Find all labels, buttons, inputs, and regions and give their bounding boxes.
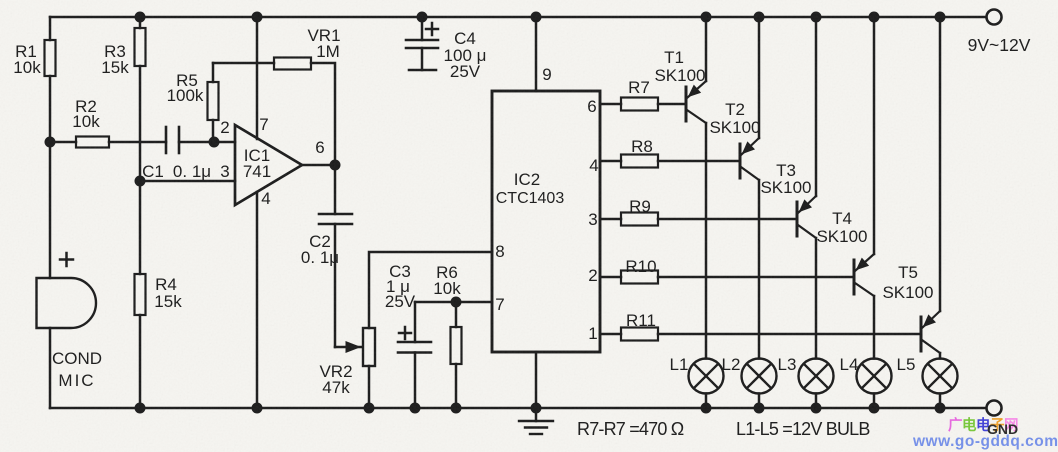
node pin2/R5 junction	[209, 137, 220, 148]
transistor T3 SK100	[797, 196, 816, 238]
label T2 SK100	[709, 100, 760, 137]
mic plus sign	[60, 253, 73, 266]
label R5	[167, 71, 204, 105]
lamp bulb L5	[923, 359, 958, 394]
watermark	[912, 416, 1058, 450]
wire top supply rail	[50, 16, 986, 19]
wire bulb L3 to ground rail	[815, 394, 818, 409]
node pin7 rail	[252, 12, 263, 23]
label T4 SK100	[816, 209, 867, 246]
label R1	[13, 42, 41, 77]
wire feedback right	[311, 63, 335, 165]
wire T5 collector to bulb	[939, 353, 942, 359]
wire to R2	[50, 141, 76, 144]
output rows R7-R11 and transistors	[600, 12, 958, 414]
node R3 top	[135, 12, 146, 23]
wire pin 4	[256, 192, 259, 408]
node T4 supply	[869, 12, 880, 23]
lamp bulb L4	[857, 359, 892, 394]
wire R5 top to feedback	[212, 63, 215, 82]
label C1 value	[142, 162, 211, 181]
label R2	[72, 97, 100, 131]
label IC1 741	[243, 146, 271, 181]
resistor R8	[600, 155, 740, 168]
node pin4 bottom	[252, 403, 263, 414]
wire rail to R3	[139, 17, 142, 28]
label T1 SK100	[654, 48, 705, 85]
label IC2	[496, 170, 565, 207]
lamp bulb L2	[742, 359, 777, 394]
terminal 9V-12V	[987, 10, 1002, 25]
label VR1	[307, 26, 340, 61]
node T3 supply	[811, 12, 822, 23]
node T2 supply	[754, 12, 765, 23]
label C4	[444, 29, 487, 81]
label T3 SK100	[760, 161, 811, 197]
node C3 bottom	[410, 403, 421, 414]
condenser microphone MIC	[37, 278, 97, 328]
resistor R11	[600, 328, 921, 341]
resistor R2	[76, 137, 109, 148]
wire supply to T4 emitter	[873, 17, 876, 254]
IC2 CTC1403	[492, 91, 600, 352]
wire IC2 ground pin	[535, 352, 538, 408]
node R4 bottom	[135, 403, 146, 414]
wire R4 to bottom rail	[139, 315, 142, 408]
wire supply to T1 emitter	[705, 17, 708, 81]
C4 plus sign	[426, 23, 438, 35]
wire pin 9	[535, 17, 538, 91]
node C4 rail	[417, 12, 428, 23]
capacitor C3	[398, 302, 431, 408]
resistor R1	[45, 40, 56, 76]
wire T4 collector to bulb	[873, 296, 876, 359]
wire output to C2	[334, 165, 337, 214]
wire C2 to VR2 wiper	[334, 224, 337, 347]
resistor R9	[600, 213, 797, 226]
label T5 SK100	[882, 263, 933, 302]
node pin3 junction	[135, 176, 146, 187]
node IC2 ground	[531, 403, 542, 414]
label C2	[301, 232, 339, 267]
wire pin 7	[256, 17, 259, 139]
wire R2 to C1	[109, 141, 166, 144]
label R3	[101, 42, 129, 77]
wire mic to bottom rail	[49, 328, 52, 408]
ground symbol	[519, 408, 553, 434]
capacitor C1	[166, 127, 179, 153]
capacitor C2	[319, 214, 352, 224]
node R6 bottom	[451, 403, 462, 414]
label COND MIC	[52, 349, 102, 390]
wire VR2 top to pin 8	[369, 252, 492, 328]
lamp bulb L3	[799, 359, 834, 394]
wire pin 3	[140, 180, 235, 183]
op-amp IC1 741	[235, 125, 302, 205]
wire R1 to mic	[49, 76, 52, 278]
wire R3 to node	[139, 66, 142, 274]
node L1 bottom	[701, 403, 712, 414]
node T1 supply	[701, 12, 712, 23]
node L3 bottom	[811, 403, 822, 414]
transistor T1 SK100	[686, 81, 706, 123]
node VR2 bottom	[364, 403, 375, 414]
transistor T2 SK100	[740, 138, 759, 180]
node pin9 rail	[531, 12, 542, 23]
node output	[330, 160, 341, 171]
resistor R4	[135, 274, 146, 315]
label VR2	[319, 362, 352, 397]
node T5 supply	[935, 12, 946, 23]
node L5 bottom	[935, 403, 946, 414]
transistor T5 SK100	[921, 311, 940, 353]
wire C1 to op-amp pin 2	[179, 141, 235, 144]
wire bulb L4 to ground rail	[873, 394, 876, 409]
potentiometer VR2	[363, 328, 375, 366]
wire supply to T3 emitter	[815, 17, 818, 196]
resistor R5	[208, 82, 219, 120]
wire T2 collector to bulb	[758, 180, 761, 359]
wire output pin 6	[302, 164, 335, 167]
label R6	[433, 263, 461, 298]
node L2 bottom	[754, 403, 765, 414]
wire supply to T5 emitter	[939, 17, 942, 311]
wire bulb L5 to ground rail	[939, 394, 942, 409]
wire VR2 bottom	[368, 366, 371, 408]
wire T3 collector to bulb	[815, 238, 818, 359]
wire C3/R6 to pin 7	[415, 301, 492, 304]
node R6 top	[451, 297, 462, 308]
potentiometer VR1	[274, 58, 311, 70]
label C3	[385, 262, 416, 311]
wire bulb L2 to ground rail	[758, 394, 761, 409]
wire feedback left	[213, 62, 274, 65]
label R4	[154, 275, 182, 311]
wire bottom ground rail	[50, 407, 986, 410]
wire R5 bottom	[212, 120, 215, 142]
node L4 bottom	[869, 403, 880, 414]
wire supply to T2 emitter	[758, 17, 761, 138]
scan noise overlay	[0, 0, 1, 1]
wire T1 collector to bulb	[705, 123, 708, 359]
lamp bulb L1	[689, 359, 724, 394]
capacitor C4	[406, 17, 438, 70]
resistor R10	[600, 271, 854, 284]
node R2 tap	[45, 137, 56, 148]
resistor R3	[135, 28, 146, 66]
terminal GND	[987, 401, 1002, 416]
resistor R6	[451, 302, 462, 408]
resistor R7	[600, 98, 686, 111]
VR2 wiper arrow	[335, 341, 362, 353]
wire left rail top segment	[49, 17, 52, 40]
C3 plus sign	[399, 327, 411, 339]
transistor T4 SK100	[854, 254, 874, 296]
wire bulb L1 to ground rail	[705, 394, 708, 409]
